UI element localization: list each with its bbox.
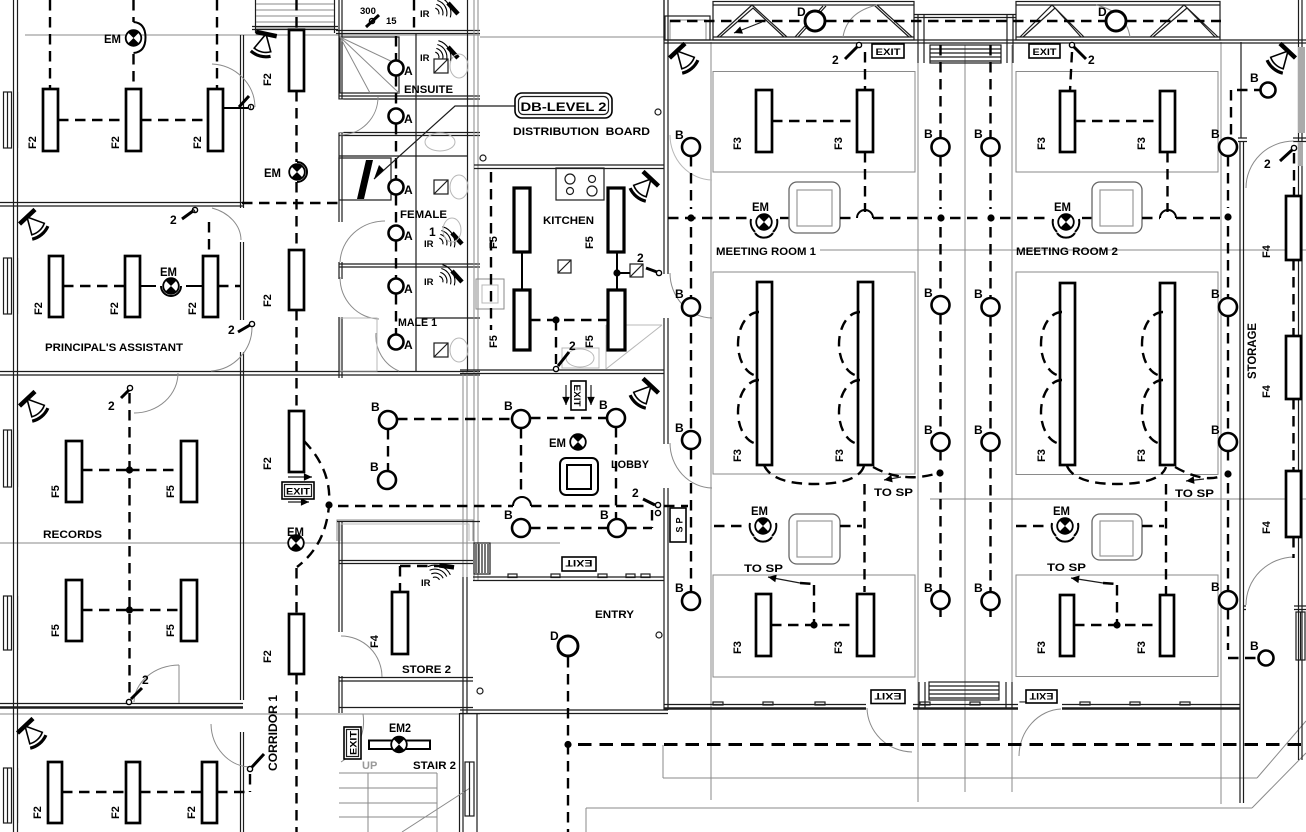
svg-text:F5: F5	[488, 335, 500, 348]
svg-text:B: B	[974, 287, 983, 301]
svg-text:LOBBY: LOBBY	[611, 459, 650, 471]
svg-text:B: B	[924, 286, 933, 300]
svg-text:F2: F2	[110, 806, 122, 819]
svg-text:F2: F2	[262, 650, 274, 663]
svg-text:F5: F5	[165, 485, 177, 498]
svg-text:F3: F3	[732, 137, 744, 150]
svg-text:B: B	[974, 581, 983, 595]
svg-text:F4: F4	[369, 634, 381, 648]
svg-text:B: B	[1250, 71, 1259, 85]
svg-text:MEETING ROOM 1: MEETING ROOM 1	[716, 246, 816, 258]
svg-text:IR: IR	[424, 277, 434, 288]
svg-text:D: D	[1098, 5, 1107, 19]
svg-text:EM2: EM2	[389, 721, 411, 735]
svg-text:MEETING ROOM 2: MEETING ROOM 2	[1016, 246, 1118, 258]
svg-text:EM: EM	[1054, 200, 1071, 214]
svg-text:TO SP: TO SP	[1047, 562, 1086, 574]
svg-text:MALE 1: MALE 1	[398, 317, 437, 329]
svg-text:DISTRIBUTION BOARD: DISTRIBUTION BOARD	[513, 126, 650, 138]
svg-text:B: B	[675, 287, 684, 301]
svg-text:F2: F2	[187, 302, 199, 315]
svg-text:B: B	[599, 398, 608, 412]
svg-text:B: B	[924, 127, 933, 141]
svg-text:F2: F2	[262, 294, 274, 307]
svg-text:F3: F3	[833, 641, 845, 654]
svg-text:EM: EM	[549, 436, 566, 450]
svg-text:F4: F4	[1261, 384, 1273, 398]
svg-text:F5: F5	[584, 236, 596, 249]
svg-text:FEMALE: FEMALE	[400, 209, 447, 221]
svg-text:STAIR 2: STAIR 2	[413, 760, 456, 772]
svg-text:F3: F3	[1036, 449, 1048, 462]
svg-text:EM: EM	[752, 200, 769, 214]
svg-text:EM: EM	[287, 525, 304, 539]
svg-text:IR: IR	[424, 239, 434, 250]
svg-text:F3: F3	[1036, 641, 1048, 654]
svg-text:RECORDS: RECORDS	[43, 529, 102, 541]
svg-text:STORAGE: STORAGE	[1245, 323, 1259, 379]
svg-text:A: A	[404, 229, 413, 243]
svg-text:2: 2	[637, 251, 644, 265]
svg-text:B: B	[1211, 423, 1220, 437]
svg-text:F2: F2	[262, 457, 274, 470]
svg-text:B: B	[675, 128, 684, 142]
svg-text:F3: F3	[732, 641, 744, 654]
svg-text:A: A	[404, 183, 413, 197]
svg-text:ENSUITE: ENSUITE	[404, 84, 453, 96]
svg-text:B: B	[675, 581, 684, 595]
svg-text:2: 2	[569, 339, 576, 353]
svg-text:2: 2	[1264, 157, 1271, 171]
svg-text:F3: F3	[1036, 137, 1048, 150]
svg-text:A: A	[404, 338, 413, 352]
svg-text:F5: F5	[488, 236, 500, 249]
svg-text:EM: EM	[751, 504, 768, 518]
svg-text:A: A	[404, 64, 413, 78]
svg-text:B: B	[974, 423, 983, 437]
svg-text:B: B	[504, 399, 513, 413]
svg-text:F4: F4	[1261, 520, 1273, 534]
svg-text:F3: F3	[732, 449, 744, 462]
svg-text:DB-LEVEL 2: DB-LEVEL 2	[521, 100, 607, 114]
svg-text:EXIT: EXIT	[1033, 47, 1058, 57]
svg-text:F3: F3	[834, 449, 846, 462]
svg-text:F3: F3	[1136, 641, 1148, 654]
svg-text:PRINCIPAL'S ASSISTANT: PRINCIPAL'S ASSISTANT	[45, 342, 183, 354]
svg-text:B: B	[974, 127, 983, 141]
svg-text:15: 15	[386, 16, 397, 27]
svg-text:EM: EM	[264, 166, 281, 180]
svg-text:2: 2	[108, 399, 115, 413]
svg-text:D: D	[797, 5, 806, 19]
svg-text:IR: IR	[421, 578, 431, 589]
svg-text:B: B	[924, 581, 933, 595]
svg-text:EXIT: EXIT	[876, 47, 902, 57]
svg-text:IR: IR	[420, 9, 430, 20]
svg-text:B: B	[1211, 580, 1220, 594]
svg-text:TO SP: TO SP	[1175, 488, 1214, 500]
svg-text:2: 2	[632, 486, 639, 500]
svg-text:F5: F5	[165, 624, 177, 637]
svg-text:A: A	[404, 112, 413, 126]
svg-text:F5: F5	[50, 624, 62, 637]
svg-text:F2: F2	[110, 136, 122, 149]
svg-text:2: 2	[228, 323, 235, 337]
svg-text:F2: F2	[33, 302, 45, 315]
svg-text:B: B	[675, 421, 684, 435]
svg-text:F3: F3	[833, 137, 845, 150]
svg-text:CORRIDOR 1: CORRIDOR 1	[266, 695, 280, 771]
svg-text:EM: EM	[160, 265, 177, 279]
svg-text:F2: F2	[109, 302, 121, 315]
svg-text:EM: EM	[104, 32, 121, 46]
svg-text:F2: F2	[27, 136, 39, 149]
svg-text:2: 2	[142, 673, 149, 687]
svg-text:B: B	[1250, 639, 1259, 653]
svg-text:EXIT: EXIT	[565, 558, 593, 568]
svg-text:B: B	[370, 460, 379, 474]
svg-text:IR: IR	[420, 53, 430, 64]
svg-text:2: 2	[832, 53, 839, 67]
svg-text:F2: F2	[186, 806, 198, 819]
svg-text:B: B	[1211, 287, 1220, 301]
svg-text:300: 300	[360, 6, 376, 17]
svg-text:B: B	[600, 508, 609, 522]
svg-text:EXIT: EXIT	[874, 691, 902, 701]
svg-text:UP: UP	[362, 760, 377, 772]
svg-text:B: B	[1211, 127, 1220, 141]
svg-text:EXIT: EXIT	[572, 385, 582, 408]
svg-text:F2: F2	[192, 136, 204, 149]
svg-text:F2: F2	[262, 73, 274, 86]
svg-text:F5: F5	[584, 335, 596, 348]
svg-text:B: B	[371, 400, 380, 414]
svg-text:F3: F3	[1136, 137, 1148, 150]
svg-text:ENTRY: ENTRY	[595, 609, 635, 621]
svg-text:F4: F4	[1261, 244, 1273, 258]
svg-text:2: 2	[170, 213, 177, 227]
svg-text:TO SP: TO SP	[744, 563, 783, 575]
svg-text:D: D	[550, 629, 559, 643]
svg-text:F5: F5	[50, 485, 62, 498]
svg-text:F3: F3	[1136, 449, 1148, 462]
svg-text:A: A	[404, 282, 413, 296]
svg-text:STORE 2: STORE 2	[402, 664, 451, 676]
svg-text:F2: F2	[32, 806, 44, 819]
svg-text:EM: EM	[1053, 504, 1070, 518]
svg-text:1: 1	[429, 225, 436, 239]
svg-text:KITCHEN: KITCHEN	[543, 215, 594, 227]
svg-text:TO SP: TO SP	[874, 487, 913, 499]
svg-text:EXIT: EXIT	[1029, 691, 1054, 701]
svg-text:EXIT: EXIT	[349, 730, 359, 755]
svg-text:EXIT: EXIT	[286, 487, 311, 497]
svg-text:2: 2	[1088, 53, 1095, 67]
svg-text:B: B	[924, 423, 933, 437]
svg-text:B: B	[504, 508, 513, 522]
